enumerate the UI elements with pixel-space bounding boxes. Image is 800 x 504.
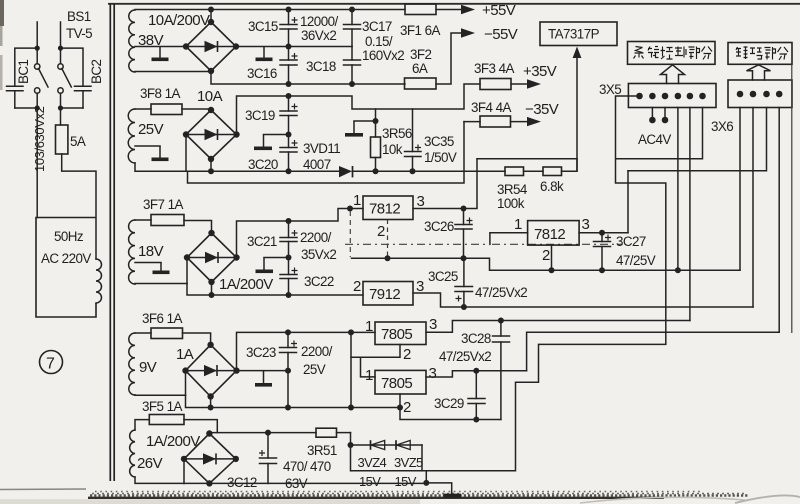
svg-text:1: 1	[365, 367, 373, 384]
capacitor 3C18	[344, 47, 361, 85]
svg-text:10A/200V: 10A/200V	[148, 12, 210, 29]
svg-text:2: 2	[403, 346, 411, 363]
connector 3X5	[628, 84, 716, 108]
wire BC2 bottom bracket	[61, 107, 84, 109]
wire ground tap 3R56	[354, 120, 376, 122]
svg-text:6A: 6A	[412, 61, 428, 76]
svg-text:3F7 1A: 3F7 1A	[143, 197, 183, 212]
svg-text:2: 2	[353, 278, 361, 295]
box decoder section	[728, 43, 792, 65]
dashed partition crease	[345, 243, 487, 245]
node 3C29 top	[473, 368, 479, 374]
svg-text:470: 470	[310, 459, 331, 474]
wire -35 feed lower jog	[188, 122, 465, 183]
svg-text:3F8 1A: 3F8 1A	[140, 86, 180, 101]
svg-text:−55V: −55V	[484, 26, 518, 43]
svg-text:7812: 7812	[369, 201, 400, 218]
wire 3X5 pin5 down	[689, 108, 691, 321]
wire 3X6 pin3 down	[628, 108, 767, 171]
node bottom rail x211	[209, 292, 215, 298]
wire zener line	[351, 444, 423, 446]
page fold line right	[791, 64, 793, 333]
node rail x427	[423, 480, 429, 486]
svg-text:3C16: 3C16	[247, 66, 277, 81]
wire TA7317P input arrow	[576, 52, 578, 171]
svg-text:103/630Vx2: 103/630Vx2	[32, 106, 47, 172]
wire common line	[352, 258, 741, 270]
wire 3X5 pin6 down	[616, 108, 703, 159]
svg-text:3F4 4A: 3F4 4A	[471, 100, 511, 115]
diode 3VD11	[339, 166, 352, 177]
fuse 3F7	[151, 215, 184, 226]
wire winding top to fuse	[135, 332, 151, 334]
svg-text:25V: 25V	[303, 362, 326, 377]
svg-text:3VZ5: 3VZ5	[394, 455, 423, 470]
node bottom rail x352	[349, 81, 355, 87]
wire to -55V arrow	[436, 33, 463, 84]
node mid 3C21	[286, 255, 292, 261]
svg-text:1: 1	[353, 192, 361, 209]
node +rail x288	[286, 93, 292, 99]
wire +5V to 3X6	[527, 332, 780, 370]
capacitor 3C35	[405, 109, 422, 174]
node 3C27 top	[599, 230, 605, 236]
svg-text:50Hz: 50Hz	[54, 229, 84, 244]
3X6 pin1	[737, 91, 744, 98]
svg-text:47/25Vx2: 47/25Vx2	[475, 285, 527, 300]
svg-text:3C18: 3C18	[306, 59, 336, 74]
wire winding bottom	[135, 477, 184, 483]
svg-text:18V: 18V	[138, 243, 164, 260]
svg-text:3C19: 3C19	[245, 108, 275, 123]
svg-text:3: 3	[582, 216, 590, 233]
wire winding center tap	[135, 145, 160, 147]
node 7812 input	[347, 206, 353, 212]
3X6 pin2	[750, 91, 757, 98]
capacitor 3C12	[259, 433, 277, 484]
node bottom rail x210	[208, 405, 214, 411]
svg-text:7805: 7805	[381, 326, 412, 343]
svg-text:2: 2	[542, 247, 550, 264]
svg-text:3F5 1A: 3F5 1A	[142, 399, 182, 414]
node zener left	[348, 442, 354, 448]
svg-text:10k: 10k	[382, 142, 403, 157]
svg-text:3C23: 3C23	[246, 345, 276, 360]
wire mid rail from bridge right	[236, 46, 352, 48]
svg-text:1A/200V: 1A/200V	[219, 276, 273, 293]
wire winding bottom	[135, 394, 186, 396]
wire BC1 bottom bracket	[15, 107, 37, 109]
label circled 7	[40, 351, 63, 374]
wire AC4V stub b	[664, 108, 666, 118]
svg-text:+55V: +55V	[482, 2, 516, 19]
capacitor 3C26	[455, 209, 473, 259]
IC TA7317P box	[540, 22, 617, 46]
ground at 3R56	[353, 121, 355, 133]
fuse 3F6	[151, 328, 183, 339]
wire winding top to fuse	[135, 108, 151, 110]
regulator 7812 #1	[363, 196, 413, 220]
wire bottom rail E	[184, 482, 426, 484]
svg-text:BS1: BS1	[67, 9, 91, 24]
hollow arrow to system control	[661, 65, 685, 84]
svg-text:3C29: 3C29	[434, 396, 464, 411]
node mid rail x288	[286, 44, 292, 50]
svg-text:3C21: 3C21	[247, 234, 277, 249]
regulator 7912	[363, 282, 413, 306]
capacitor 3C21	[280, 221, 298, 258]
wire 7812#1 output	[413, 159, 477, 209]
wire mid rail	[237, 370, 289, 372]
wire 3X5 pin1 route to stairs	[352, 96, 666, 471]
svg-text:3VZ4: 3VZ4	[358, 455, 387, 470]
node mid x288	[286, 132, 292, 138]
svg-text:2200/: 2200/	[301, 344, 333, 359]
wire bridge left stub	[186, 258, 188, 284]
wire bridge top stub	[210, 10, 212, 23]
wire 7812#1 pin2	[387, 220, 389, 259]
svg-text:3C25: 3C25	[428, 269, 458, 284]
fuse 3F5	[149, 415, 184, 425]
wire fuse to bridge top	[183, 333, 211, 345]
svg-text:3R56: 3R56	[382, 126, 412, 141]
node 3C26 bottom	[461, 255, 467, 261]
3X5 pin4	[675, 93, 682, 100]
wire 7812#2 output	[579, 232, 628, 234]
svg-text:3C35: 3C35	[424, 134, 454, 149]
wire fuse to bridge top	[184, 420, 217, 433]
svg-text:3X6: 3X6	[711, 119, 733, 134]
wire top rail E	[209, 432, 316, 434]
svg-text:15V: 15V	[395, 474, 417, 489]
node top rail x288	[286, 7, 292, 13]
wire +12V to TA7317P sense	[477, 158, 577, 160]
wire BC1 top bracket	[15, 48, 37, 85]
wire winding center to bridge left	[135, 46, 187, 48]
transformer core	[109, 4, 111, 481]
svg-text:2: 2	[377, 223, 385, 240]
wire bottom rail	[211, 71, 405, 84]
primary winding	[96, 259, 102, 303]
capacitor 3C28	[493, 321, 510, 420]
dashed partition vertical	[349, 211, 351, 257]
svg-text:15V: 15V	[359, 474, 381, 489]
wire 7805#2 pin2	[400, 394, 501, 420]
ground at winding A	[159, 47, 161, 58]
svg-text:3F3 4A: 3F3 4A	[474, 61, 514, 76]
wire 7805#2 output	[426, 371, 527, 377]
svg-text:7812: 7812	[534, 226, 565, 243]
capacitor 3C20	[280, 135, 298, 172]
bridge rectifier 10A/200V	[183, 19, 239, 74]
node top rail x211	[208, 7, 214, 13]
wire 3X6 pin1 down	[739, 108, 741, 271]
bridge rectifier 1A/200V E	[181, 430, 239, 486]
ground at 3C22	[263, 258, 265, 270]
bottom scan band	[0, 488, 86, 491]
svg-text:3C12: 3C12	[227, 475, 257, 490]
wire 3X5 pin4 down	[677, 108, 679, 271]
svg-text:3C28: 3C28	[461, 331, 491, 346]
wire mid segment	[264, 257, 289, 259]
box system control section	[628, 42, 716, 65]
wire winding center tap	[135, 262, 161, 264]
wire 7812#2 out to pin3 line	[627, 171, 629, 233]
wire bridge bottom stub	[210, 159, 212, 171]
capacitor 3C17	[344, 10, 361, 47]
node 3C28 top	[498, 318, 504, 324]
svg-text:3: 3	[429, 365, 437, 382]
wire to -35V arrow	[511, 121, 530, 123]
node bottom rail x288	[286, 81, 292, 87]
wire zener right drop	[421, 445, 423, 471]
svg-text:3VD11: 3VD11	[303, 141, 340, 156]
svg-text:2: 2	[403, 399, 411, 416]
svg-text:6.8k: 6.8k	[540, 179, 564, 194]
wire 3X6 pin4 down	[778, 108, 780, 333]
svg-text:BC1: BC1	[16, 59, 31, 84]
wire bottom rail -35 unreg	[186, 170, 339, 172]
capacitor 3C22	[280, 258, 298, 296]
3X5 pin2	[649, 93, 656, 100]
svg-text:3C17: 3C17	[362, 19, 392, 34]
svg-text:3F6 1A: 3F6 1A	[142, 311, 182, 326]
svg-text:2200/: 2200/	[300, 230, 332, 245]
winding 26V secondary	[130, 430, 135, 477]
ground at winding B	[159, 146, 161, 158]
svg-text:7: 7	[46, 356, 55, 373]
svg-text:12000/: 12000/	[300, 14, 338, 29]
capacitor BC1	[7, 85, 24, 87]
node branch2 top	[58, 46, 63, 51]
switch S1	[35, 64, 40, 69]
regulator 7805 #2	[375, 370, 426, 394]
3X6 pin4	[776, 91, 783, 98]
node bottom rail x288	[285, 405, 291, 411]
wire top rail +55 unreg	[135, 9, 405, 11]
resistor 3R51	[316, 428, 337, 437]
hanzi 系统控制部分	[634, 47, 713, 60]
wire fuse to bridge top	[184, 221, 212, 234]
wire bottom rail	[187, 284, 363, 296]
wire divider line	[524, 170, 544, 172]
wire bridge bottom stub	[211, 282, 213, 295]
hanzi 解码部分	[736, 47, 788, 60]
wire bottom rail	[186, 395, 402, 407]
ground at 3C20	[263, 135, 265, 147]
wire x351 vertical	[350, 332, 352, 407]
svg-text:3R54: 3R54	[497, 182, 528, 197]
svg-text:0.15/: 0.15/	[365, 34, 393, 49]
svg-text:26V: 26V	[137, 455, 163, 472]
wire branch1 top lead	[36, 22, 38, 64]
winding 18V secondary	[129, 220, 135, 284]
ground at row E	[426, 483, 451, 494]
svg-text:7805: 7805	[381, 375, 412, 392]
wire winding top to fuse	[135, 420, 149, 430]
node bottom rail x288	[286, 168, 292, 174]
svg-text:3: 3	[417, 193, 425, 210]
wire bridge right to +rail	[237, 332, 376, 370]
capacitor 3C27	[594, 233, 612, 273]
svg-text:3F2: 3F2	[410, 47, 432, 62]
fuse 5A	[56, 125, 68, 154]
svg-text:3C26: 3C26	[424, 219, 454, 234]
node 3C23 bottom	[285, 368, 291, 374]
wire bridge right up to +rail	[237, 84, 481, 135]
svg-text:+35V: +35V	[523, 63, 557, 80]
wire bridge left stub	[185, 371, 187, 396]
svg-text:5A: 5A	[70, 134, 86, 149]
hollow arrow to decoder	[747, 65, 771, 80]
wire 7912 output	[413, 293, 753, 307]
svg-text:3: 3	[429, 316, 437, 333]
node bottom rail x288	[286, 292, 292, 298]
wire jog down to zener line	[350, 433, 352, 471]
capacitor 3C23	[280, 332, 298, 370]
wire to +55V arrow	[436, 9, 463, 11]
connector 3X6	[728, 80, 792, 108]
wire fuse to bridge top	[182, 109, 211, 110]
zener 3VZ4	[370, 440, 372, 450]
node top rail x352	[349, 7, 355, 13]
fuse 3F2	[405, 78, 437, 89]
svg-text:160Vx2: 160Vx2	[362, 48, 404, 63]
svg-text:1: 1	[365, 318, 373, 335]
wire 7805#1 output	[426, 321, 690, 333]
wire winding bottom to bridge bottom	[135, 71, 211, 73]
wire rail after 3R51	[337, 432, 351, 434]
wire 7812#2 input jog	[490, 233, 528, 245]
svg-text:−35V: −35V	[525, 101, 559, 118]
bridge rectifier 1A/200V	[184, 230, 240, 285]
node +rail 3C21	[286, 218, 292, 224]
svg-text:TA7317P: TA7317P	[548, 27, 600, 42]
wire fuse to primary	[62, 154, 96, 259]
winding 9V secondary	[129, 333, 135, 395]
capacitor 3C19	[280, 96, 298, 135]
svg-text:3C20: 3C20	[248, 157, 278, 172]
node 3C26 top	[461, 206, 467, 212]
svg-text:3C27: 3C27	[616, 234, 646, 249]
node branch2 bottom	[58, 105, 63, 110]
svg-text:1A/200V: 1A/200V	[146, 433, 200, 450]
ground at row D	[263, 371, 265, 383]
svg-text:3X5: 3X5	[599, 82, 621, 97]
svg-text:100k: 100k	[497, 196, 525, 211]
node bottom rail x351	[348, 405, 354, 411]
ground at winding C	[160, 263, 162, 271]
capacitor 3C25	[455, 258, 473, 310]
svg-text:4007: 4007	[303, 157, 331, 172]
fuse 3F3	[480, 79, 511, 90]
node +rail 3C23	[285, 329, 291, 335]
wire winding top to fuse	[135, 219, 151, 221]
bridge rectifier 10A	[183, 107, 240, 162]
resistor 3R56	[371, 109, 381, 174]
wire into 5A fuse	[60, 108, 62, 125]
svg-text:TV-5: TV-5	[66, 26, 92, 41]
svg-text:36Vx2: 36Vx2	[301, 28, 336, 43]
node bottom rail x400	[397, 405, 403, 411]
wire branch1 down to box	[36, 108, 38, 218]
svg-text:1/50V: 1/50V	[424, 150, 457, 165]
fuse 3F8	[151, 104, 182, 115]
svg-text:3C22: 3C22	[304, 274, 334, 289]
capacitor 3C15	[280, 10, 298, 47]
svg-text:3R51: 3R51	[307, 443, 337, 458]
node 3C12 top	[265, 430, 271, 436]
wire bridge right to +rail	[237, 209, 364, 258]
node branch1 bottom	[35, 105, 40, 110]
3X5 pin1	[636, 93, 643, 100]
svg-text:10A: 10A	[197, 88, 223, 105]
regulator 7805 #1	[375, 322, 426, 345]
wire bridge left stub down	[185, 135, 187, 172]
svg-text:3C15: 3C15	[248, 19, 278, 34]
svg-text:25V: 25V	[138, 121, 164, 138]
wire BC2 top bracket	[61, 48, 84, 85]
wire winding bottom	[135, 283, 187, 286]
wire branch2 top lead	[60, 22, 62, 64]
wire 7805#2 input	[361, 357, 376, 377]
node branch1 top	[35, 46, 40, 51]
top border	[108, 3, 800, 5]
svg-text:1: 1	[514, 216, 522, 233]
svg-text:AC4V: AC4V	[638, 132, 671, 147]
wire bridge left stub	[183, 459, 185, 484]
ground at 3C16	[263, 47, 265, 58]
wire 3X6 pin2 down	[752, 108, 754, 308]
wire 3F4 entry	[464, 121, 480, 123]
resistor 3R54	[505, 167, 524, 176]
wire 7805#1 pin2	[351, 345, 400, 358]
regulator 7812 #2	[528, 221, 580, 246]
svg-text:35Vx2: 35Vx2	[301, 247, 336, 262]
svg-text:470/: 470/	[283, 459, 308, 474]
svg-text:BC2: BC2	[89, 59, 104, 84]
winding 25V secondary	[128, 109, 135, 163]
3X5 pin5	[687, 93, 694, 100]
zener 3VZ5	[395, 440, 397, 450]
svg-text:1A: 1A	[176, 346, 194, 363]
3X6 pin3	[763, 91, 770, 98]
svg-text:7912: 7912	[369, 286, 400, 303]
wire mid segment	[264, 134, 289, 136]
svg-text:AC 220V: AC 220V	[41, 251, 91, 266]
switch S2	[58, 64, 63, 69]
winding 38V secondary	[129, 10, 135, 72]
capacitor 3C16	[280, 47, 298, 85]
svg-text:3F1 6A: 3F1 6A	[400, 23, 440, 38]
svg-text:9V: 9V	[139, 359, 157, 376]
3X5 pin3	[662, 93, 669, 100]
capacitor 3C29	[468, 371, 485, 423]
schematic	[7, 4, 115, 481]
node +rail x351	[348, 329, 354, 335]
wire 3C23 bottom to rail	[287, 371, 289, 408]
svg-text:47/25Vx2: 47/25Vx2	[439, 349, 491, 364]
capacitor BC2	[75, 85, 92, 87]
wire AC4V stub a	[651, 108, 653, 118]
svg-text:47/25V: 47/25V	[616, 253, 656, 268]
3X5 pin6	[699, 93, 706, 100]
fuse 3F4	[480, 116, 511, 127]
wire bridge bottom stub	[210, 397, 212, 408]
resistor 6.8k	[543, 167, 562, 176]
wire winding bottom	[135, 163, 186, 171]
transformer primary box 50Hz AC220V	[36, 218, 96, 318]
